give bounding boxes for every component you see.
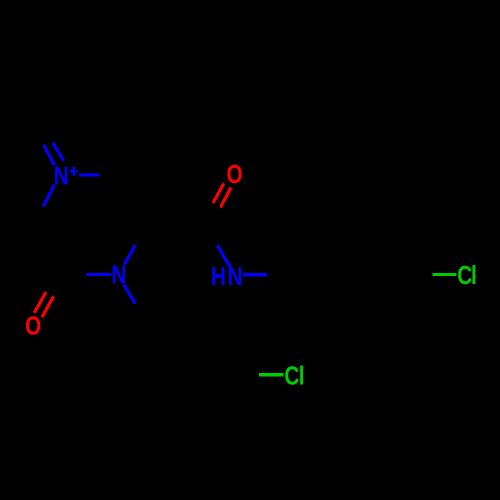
svg-text:O: O [25, 313, 41, 342]
svg-text:O: O [227, 161, 243, 190]
svg-text:N: N [228, 263, 243, 292]
svg-text:C: C [284, 362, 299, 391]
svg-text:l: l [299, 362, 305, 391]
svg-text:C: C [457, 262, 472, 291]
svg-text:N: N [111, 261, 126, 290]
svg-text:l: l [471, 262, 477, 291]
svg-text:H: H [211, 263, 226, 292]
svg-text:N: N [54, 162, 69, 191]
